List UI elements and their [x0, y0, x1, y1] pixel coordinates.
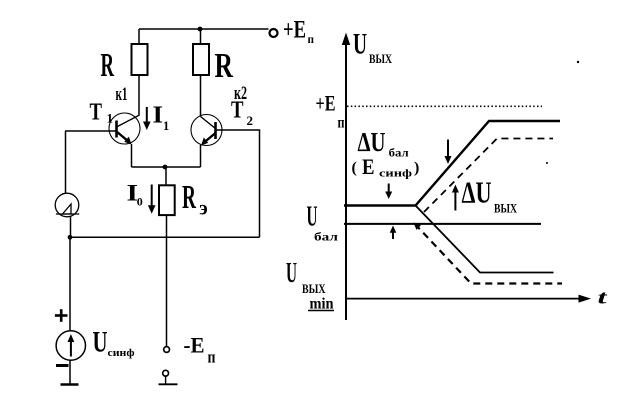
svg-text:U: U	[286, 258, 297, 289]
label Uvyh min	[286, 258, 334, 313]
curve output upper solid	[344, 121, 560, 206]
svg-text:ΔU: ΔU	[462, 175, 492, 210]
wire T1 base	[65, 130, 116, 132]
svg-text:R: R	[215, 46, 234, 85]
svg-text:U: U	[307, 201, 318, 232]
current arrow I1	[143, 107, 151, 130]
label dUvyh	[462, 175, 518, 216]
label -Ep	[184, 333, 216, 367]
speck	[546, 162, 548, 164]
svg-text:к1: к1	[116, 84, 128, 105]
svg-text:+E: +E	[283, 17, 306, 44]
wire T2 emitter	[200, 145, 202, 167]
wire source to junction	[70, 217, 72, 238]
label minus	[56, 364, 69, 367]
wire common rail	[70, 236, 260, 238]
svg-text:ΔU: ΔU	[358, 127, 386, 157]
curve output lower solid	[416, 206, 554, 273]
wire T2 base to common rail	[216, 130, 260, 237]
svg-text:ВЫХ: ВЫХ	[369, 51, 392, 66]
label +Ep	[283, 17, 314, 47]
label R2 value R	[215, 46, 234, 85]
resistor Re	[159, 185, 175, 215]
label R1 value R	[101, 47, 115, 84]
label Ubal	[307, 201, 339, 243]
svg-text:+E: +E	[316, 91, 336, 116]
transistor T1	[109, 113, 140, 145]
svg-text:): )	[414, 160, 419, 177]
svg-text:1: 1	[163, 119, 169, 133]
label k2	[234, 83, 247, 104]
svg-text:-E: -E	[184, 333, 205, 358]
terminal +Ep open circle	[270, 29, 278, 37]
terminal -Ep open circle	[164, 347, 170, 353]
label (Esinf)	[352, 154, 420, 179]
axis Uvyh vertical	[342, 33, 350, 321]
curve upper dashed	[424, 139, 553, 213]
label Uvyh axis	[353, 28, 392, 67]
svg-text:T: T	[90, 100, 103, 126]
svg-text:п: п	[338, 115, 345, 132]
resistor R1 (left collector)	[132, 29, 148, 116]
svg-text:синф: синф	[108, 347, 135, 359]
svg-text:синф: синф	[379, 167, 413, 179]
svg-text:R: R	[101, 47, 115, 84]
svg-text:ВЫХ: ВЫХ	[494, 201, 517, 216]
resistor R2 (right collector)	[193, 29, 209, 117]
svg-text:(: (	[352, 160, 357, 177]
arrow down at rising curve	[445, 140, 452, 165]
svg-text:U: U	[93, 326, 108, 359]
svg-text:бал: бал	[389, 147, 410, 159]
arrow up dUvyh	[452, 185, 459, 211]
label T2	[231, 98, 253, 128]
svg-text:T: T	[231, 98, 244, 124]
svg-text:R: R	[182, 179, 196, 216]
label dUbal	[358, 127, 410, 159]
wire T1 emitter	[131, 144, 133, 167]
label Usinf	[93, 326, 135, 359]
wire emitter rail	[132, 166, 201, 168]
wire T1 base branch down	[65, 131, 67, 194]
svg-text:бал: бал	[314, 230, 338, 244]
label +Ep level	[316, 91, 345, 132]
wire Re to -Ep terminal	[166, 215, 168, 346]
label Re	[182, 179, 208, 219]
terminal lower open circle	[159, 370, 178, 384]
source G1 input signal	[55, 193, 79, 217]
current arrow I0	[148, 185, 156, 214]
node emitter junction	[163, 165, 168, 170]
curve lower dashed	[414, 223, 563, 284]
wire junction to Re	[165, 167, 167, 186]
ground	[61, 383, 79, 386]
label k1	[116, 84, 128, 105]
wire Usinf to ground	[69, 360, 71, 384]
svg-text:п: п	[308, 32, 315, 46]
svg-text:t: t	[598, 288, 608, 309]
node rail junction	[198, 27, 203, 32]
label t	[598, 288, 608, 309]
node bottom junction	[68, 235, 73, 240]
label plus	[55, 309, 68, 322]
svg-text:U: U	[353, 28, 367, 61]
label I1	[153, 103, 170, 133]
svg-text:2: 2	[247, 113, 254, 128]
transistor T2	[191, 115, 222, 146]
svg-text:ВЫХ: ВЫХ	[302, 282, 326, 296]
wire +Ep supply rail	[139, 28, 269, 30]
label I0	[127, 180, 143, 208]
svg-text:E: E	[362, 154, 375, 179]
axis t horizontal	[346, 295, 591, 303]
wire junction to Usinf	[69, 237, 71, 331]
speck	[577, 61, 579, 63]
arrow up at Ubal line	[390, 226, 397, 240]
svg-text:э: э	[199, 198, 208, 220]
label T1	[90, 100, 114, 126]
line +Ep dotted level	[347, 105, 542, 107]
line Ubal level	[344, 223, 541, 225]
svg-text:п: п	[208, 347, 216, 366]
source Usinf	[56, 331, 85, 360]
svg-text:I: I	[153, 103, 164, 129]
svg-text:0: 0	[137, 194, 143, 208]
arrow down dUbal	[385, 184, 392, 200]
